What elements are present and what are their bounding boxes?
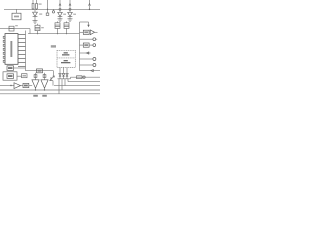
op-amp A1: [14, 83, 21, 89]
label speck crystal: [15, 25, 18, 26]
box R1 amp input: [80, 31, 84, 33]
wire op-amp input: [0, 85, 14, 87]
box B filter: [22, 74, 28, 78]
resistor R1: [32, 4, 34, 10]
jack J4: [93, 64, 96, 67]
arrow down input: [88, 22, 90, 25]
wire LDO out: [17, 75, 22, 77]
wire top feed: [80, 21, 89, 23]
diode D2: [59, 10, 61, 12]
label i2c interface: [64, 60, 68, 61]
diode Z2: [63, 68, 65, 74]
amplifier Q1 down triangle: [32, 80, 39, 88]
wire Q1 to rail: [35, 88, 37, 90]
component small box under node: [46, 13, 49, 15]
connector ladder right of U1: [25, 31, 27, 71]
label speck D3: [73, 14, 76, 15]
amplifier Q2 down triangle: [41, 80, 48, 88]
wire bus line 3: [0, 89, 100, 91]
wire bus line 0: [71, 76, 101, 78]
wire diode row bar: [58, 78, 71, 80]
diode D3: [69, 10, 71, 12]
junction dots on rail: [32, 9, 33, 10]
label I2C-bus: [51, 45, 56, 47]
jack J3: [93, 58, 96, 61]
pin P5: [3, 52, 5, 54]
wire right bus vertical: [79, 22, 81, 71]
wire control net y=70.7: [26, 70, 54, 72]
wire crystal net: [0, 29, 30, 34]
wire drop to amp Q2: [44, 73, 46, 80]
capacitor C2: [57, 21, 59, 22]
wire bus line 2: [54, 85, 100, 87]
divider U5: [57, 57, 75, 59]
wire to output stage: [29, 85, 32, 87]
wire jack row 5: [80, 58, 93, 60]
amplifier A2: [90, 30, 94, 35]
transistor Q3: [53, 71, 55, 76]
wire output row with arrow: [80, 70, 101, 72]
ground below D3: [68, 19, 73, 22]
wire arrow row: [80, 52, 91, 54]
wire vertical input x=60 with arrow: [59, 0, 61, 8]
wire drop to amp Q1: [35, 73, 37, 80]
pin P1: [3, 36, 5, 38]
wire jack row 6: [80, 64, 93, 66]
wire top supply rail: [4, 8, 100, 10]
capacitor C1: [37, 24, 39, 25]
label speck D1: [39, 13, 42, 14]
label U1 vertical text: [10, 41, 12, 57]
wire vertical input x=47.5: [47, 0, 49, 13]
wire jack row 2: [80, 38, 93, 40]
node R1 top: [32, 0, 34, 4]
resistor R2: [36, 4, 38, 10]
box U5 bus engine / interface (dashed): [57, 50, 75, 67]
jack J1: [93, 38, 96, 41]
pin P6: [3, 56, 5, 58]
wire mid supply rail: [28, 33, 80, 35]
arrow left on wire: [86, 52, 89, 54]
wire bus line 1: [68, 81, 100, 83]
pin P2: [3, 40, 5, 42]
wire drop to bus line 4: [58, 79, 60, 94]
box outer LDO block: [3, 72, 17, 80]
box bias Q1: [34, 75, 37, 78]
wire vertical supply input x=89.5: [89, 0, 91, 9]
label speck C1: [41, 27, 44, 28]
terminal open circle: [53, 9, 55, 10]
label inside U2: [14, 16, 19, 18]
wire drop to bus line 2: [64, 79, 66, 86]
wire U2 to rail: [16, 9, 18, 13]
pin P4: [3, 48, 5, 50]
diode D1: [34, 9, 36, 12]
wire drop to bus line 1: [67, 79, 69, 82]
wire stub up to line 0: [70, 77, 72, 79]
label bus engine: [64, 52, 68, 53]
diode Z3: [66, 68, 68, 74]
crystal X1: [9, 26, 14, 31]
label speck R1R2: [39, 3, 42, 4]
box U2 top-left regulator: [12, 13, 21, 20]
wire Q2 to rail: [44, 88, 46, 90]
wire op-amp out: [21, 85, 24, 87]
box C ref: [23, 83, 29, 87]
diode Z1: [59, 68, 61, 74]
box U4 LDO: [7, 74, 14, 79]
pin P7: [3, 60, 5, 62]
pin P3: [3, 44, 5, 46]
wire bus line 4: [0, 93, 100, 95]
box bias Q2: [43, 75, 46, 78]
node R2 top: [36, 0, 38, 4]
label speck D2: [63, 14, 66, 15]
jack J2: [93, 44, 96, 47]
box D on control net: [37, 69, 43, 73]
wire DAC out: [14, 67, 26, 69]
label GND 1: [33, 95, 38, 97]
wire vertical input x=70 with arrow: [69, 0, 71, 8]
component F1 on line 0: [77, 76, 83, 79]
label GND 2: [42, 95, 47, 97]
box R2: [80, 44, 84, 46]
capacitor C3: [66, 21, 68, 22]
box U3 DAC below IC: [7, 66, 14, 71]
IC U1 main package: [5, 34, 18, 65]
ground below D2: [58, 19, 63, 22]
wire drop to bus line 3: [61, 79, 63, 90]
ground below D1: [33, 21, 38, 24]
